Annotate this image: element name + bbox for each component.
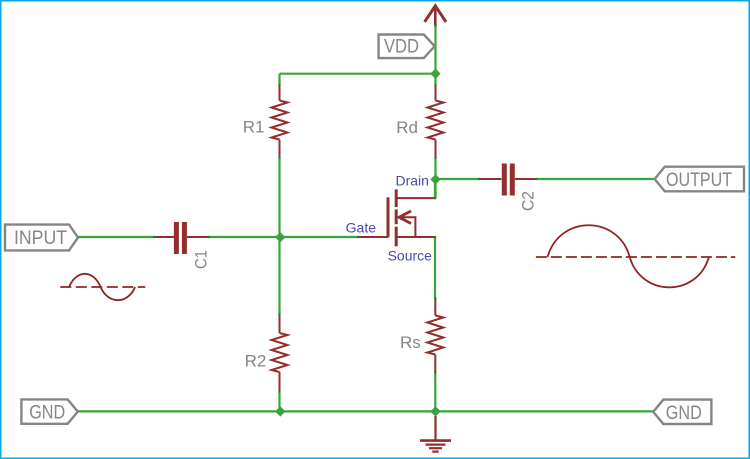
label R1 [243,117,265,136]
drain connection line [396,197,435,199]
label Gate [346,220,377,236]
gate pin [358,236,388,238]
label C1 [192,250,211,269]
ground symbol [420,416,451,452]
label Rs [400,333,421,352]
power flag VDD [379,35,435,59]
port flag OUTPUT [655,167,744,192]
wire VDD stem to top junction [434,26,436,74]
source connection line [396,236,435,238]
label Source [388,248,433,264]
bulk arrowhead [399,211,411,224]
junction drain node [430,174,440,184]
junction VDD node [430,69,440,79]
svg-text:Rs: Rs [400,333,421,352]
svg-text:Drain: Drain [396,173,429,189]
svg-text:GND: GND [666,403,702,424]
wire drain junction down to drain line [434,179,436,198]
gate plate [387,197,390,237]
wire ground rail [78,410,653,412]
wire junction VDD to Rd top [434,74,436,85]
svg-text:VDD: VDD [384,37,419,58]
wire C2 to OUTPUT [536,178,655,180]
wire top rail [280,73,436,75]
junction Rs ground node [430,406,440,416]
wire R2 top from gate node [278,237,280,314]
channel bar top [395,189,398,207]
port flag GND left [21,399,77,423]
output sine symbol [536,225,735,287]
svg-text:GND: GND [29,402,65,423]
wire gate node to gate pin [280,236,359,238]
resistor Rd [428,85,444,157]
power symbol VDD arrow [425,6,446,26]
wire R2 bottom to ground rail [278,392,280,412]
svg-text:Gate: Gate [346,220,377,236]
wire junction to R1 top [278,74,280,85]
svg-text:R2: R2 [245,352,267,371]
resistor R1 [272,85,288,157]
svg-text:C1: C1 [192,250,211,269]
svg-text:INPUT: INPUT [14,228,67,249]
transistor Q1 N-MOSFET [358,189,435,246]
svg-text:Source: Source [388,248,433,264]
wire C1 to gate node [209,236,280,238]
resistor R2 [272,314,288,391]
label Drain [396,173,429,189]
wire drain node to C2 [436,178,480,180]
resistor Rs [427,299,443,373]
channel bar bottom [395,227,398,247]
svg-text:R1: R1 [243,117,265,136]
wire end dots [153,24,537,421]
label C2 [519,191,538,211]
wire INPUT to C1 [78,236,154,238]
capacitor C1 [154,222,209,254]
port flag INPUT [5,225,78,251]
label Rd [396,118,418,137]
wire Rs bottom to ground rail [434,372,436,411]
label R2 [245,352,267,371]
svg-text:OUTPUT: OUTPUT [666,170,732,191]
wire Rd bottom to drain junction [434,157,436,198]
junction R2 ground node [275,406,285,416]
input sine symbol [60,274,145,300]
bulk arrow line [400,217,416,237]
channel bar middle [395,210,398,225]
capacitor C2 [479,164,536,196]
port flag GND right [653,400,711,424]
svg-text:C2: C2 [519,191,538,211]
svg-text:Rd: Rd [396,118,418,137]
junction gate node [275,232,285,242]
wire R1 bottom to gate node [278,157,280,237]
wire source to Rs top [434,237,436,299]
